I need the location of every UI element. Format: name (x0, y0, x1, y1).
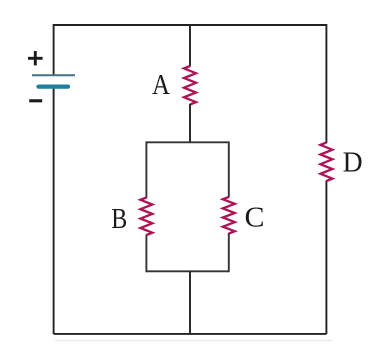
inner rect top edge (146, 141, 228, 143)
wire right edge upper (325, 24, 327, 143)
minus label (29, 99, 42, 102)
inner rect right edge upper (228, 141, 230, 197)
svg-text:B: B (111, 203, 127, 235)
wire left edge upper (to battery) (53, 24, 55, 75)
svg-text:C: C (245, 202, 265, 234)
wire top edge (54, 24, 327, 26)
battery V1 bottom plate (-) (39, 84, 69, 88)
battery V1 top plate (+) (32, 74, 75, 76)
inner rect left edge lower (145, 235, 147, 273)
resistor B (140, 198, 152, 236)
inner rect right edge lower (228, 233, 230, 272)
wire left edge lower (battery to bottom) (53, 87, 55, 334)
resistor C (223, 197, 235, 234)
plus label (28, 51, 43, 65)
wire bottom edge (54, 333, 327, 335)
svg-text:A: A (152, 69, 170, 101)
inner rect left edge upper (145, 141, 147, 198)
resistor D (320, 143, 332, 182)
svg-text:D: D (343, 147, 363, 179)
wire middle branch upper (189, 24, 191, 67)
wire right edge lower (325, 181, 327, 335)
inner rect bottom edge (146, 270, 228, 272)
faint shadow line (55, 340, 332, 342)
wire inner rect bottom to outer bottom (189, 271, 191, 334)
resistor A (184, 66, 196, 105)
wire middle branch lower (A to inner rect) (189, 104, 191, 143)
